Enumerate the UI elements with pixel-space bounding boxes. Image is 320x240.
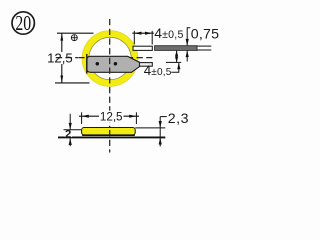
item balloon 20 bbox=[12, 12, 34, 36]
battery cell outline (top view, yellow ring) bbox=[82, 31, 138, 87]
upper pin (positive tab pin) bbox=[133, 46, 152, 50]
tab left bend line bbox=[86, 54, 88, 74]
weld dot 1 bbox=[96, 62, 100, 66]
centerline lower part bbox=[109, 127, 111, 153]
battery body (side view) bbox=[82, 128, 136, 135]
vertical centerline bbox=[109, 19, 111, 127]
solder tab line (side view) bbox=[58, 136, 165, 138]
lower pin extension line bbox=[166, 61, 181, 63]
dimension 12,5 (side view) bbox=[79, 110, 139, 124]
horizontal centerline bbox=[78, 57, 152, 59]
lower pin bbox=[140, 63, 153, 67]
svg-text:12,5: 12,5 bbox=[100, 110, 123, 123]
dimension 2 (left, side view) bbox=[64, 114, 82, 146]
svg-text:12,5: 12,5 bbox=[47, 51, 73, 66]
dimension 4±0,5 (upper pin) bbox=[132, 25, 183, 45]
dimension 2,3 (right, side view) with leader bbox=[135, 111, 189, 146]
body bottom edge bbox=[82, 134, 135, 136]
polarity mark bbox=[71, 35, 77, 41]
weld dot 2 bbox=[114, 62, 118, 66]
pin side-view outline continuation bbox=[197, 45, 211, 47]
solder tab (negative terminal, gray strip) bbox=[87, 56, 140, 72]
label 0,75 with leader bbox=[186, 27, 220, 62]
dimension 4±0,5 (lower pin) with leader bbox=[144, 63, 181, 79]
svg-text:2: 2 bbox=[65, 129, 71, 141]
svg-text:20: 20 bbox=[15, 12, 31, 36]
tab taper to pin bbox=[128, 56, 141, 72]
dimension 12,5 diameter (top view) bbox=[47, 33, 93, 83]
pin side-view bar (0,75 thick) bbox=[155, 46, 197, 51]
gap dimension arrows bbox=[175, 51, 178, 63]
svg-text:2,3: 2,3 bbox=[168, 111, 189, 127]
svg-text:0,75: 0,75 bbox=[191, 27, 219, 43]
